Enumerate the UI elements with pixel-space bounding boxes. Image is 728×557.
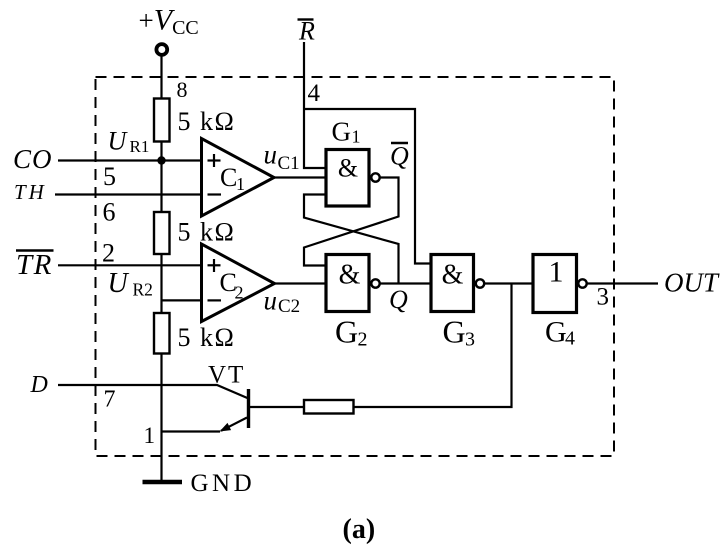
svg-text:D: D bbox=[30, 372, 48, 398]
svg-text:(a): (a) bbox=[343, 514, 376, 545]
svg-text:Q: Q bbox=[389, 285, 408, 314]
svg-text:5 kΩ: 5 kΩ bbox=[178, 107, 236, 136]
svg-text:3: 3 bbox=[465, 329, 475, 351]
svg-text:U: U bbox=[108, 127, 129, 156]
svg-text:5: 5 bbox=[103, 162, 116, 191]
svg-text:CO: CO bbox=[13, 144, 53, 174]
svg-text:G: G bbox=[332, 117, 352, 147]
svg-text:4: 4 bbox=[308, 80, 321, 107]
svg-text:G: G bbox=[443, 314, 466, 350]
svg-text:C1: C1 bbox=[278, 153, 300, 174]
svg-text:TR: TR bbox=[16, 249, 53, 281]
svg-text:u: u bbox=[264, 286, 278, 316]
svg-text:1: 1 bbox=[144, 423, 156, 448]
svg-text:7: 7 bbox=[104, 387, 116, 413]
svg-text:1: 1 bbox=[549, 256, 564, 289]
svg-text:G: G bbox=[545, 316, 567, 349]
svg-text:&: & bbox=[339, 260, 361, 291]
svg-text:R: R bbox=[298, 17, 315, 46]
svg-text:GND: GND bbox=[191, 470, 256, 497]
svg-text:1: 1 bbox=[236, 174, 245, 194]
svg-text:3: 3 bbox=[597, 284, 610, 311]
svg-text:2: 2 bbox=[235, 283, 244, 303]
svg-text:u: u bbox=[264, 140, 278, 170]
svg-text:VT: VT bbox=[208, 362, 245, 389]
svg-text:C: C bbox=[220, 163, 237, 192]
svg-text:R2: R2 bbox=[133, 280, 153, 300]
svg-text:8: 8 bbox=[177, 77, 188, 102]
svg-text:TH: TH bbox=[14, 180, 47, 204]
svg-text:G: G bbox=[335, 314, 358, 350]
svg-text:C2: C2 bbox=[278, 296, 300, 317]
svg-text:2: 2 bbox=[358, 329, 368, 351]
svg-text:&: & bbox=[442, 260, 464, 291]
svg-text:2: 2 bbox=[102, 239, 115, 268]
svg-text:5 kΩ: 5 kΩ bbox=[178, 218, 236, 247]
svg-text:6: 6 bbox=[103, 198, 116, 227]
svg-text:1: 1 bbox=[352, 127, 361, 147]
svg-text:U: U bbox=[108, 268, 130, 299]
svg-text:4: 4 bbox=[565, 328, 575, 350]
svg-text:5 kΩ: 5 kΩ bbox=[178, 323, 236, 352]
svg-text:Q: Q bbox=[390, 142, 409, 171]
svg-text:&: & bbox=[338, 154, 358, 183]
svg-text:R1: R1 bbox=[130, 137, 150, 156]
svg-text:OUT: OUT bbox=[664, 268, 720, 298]
